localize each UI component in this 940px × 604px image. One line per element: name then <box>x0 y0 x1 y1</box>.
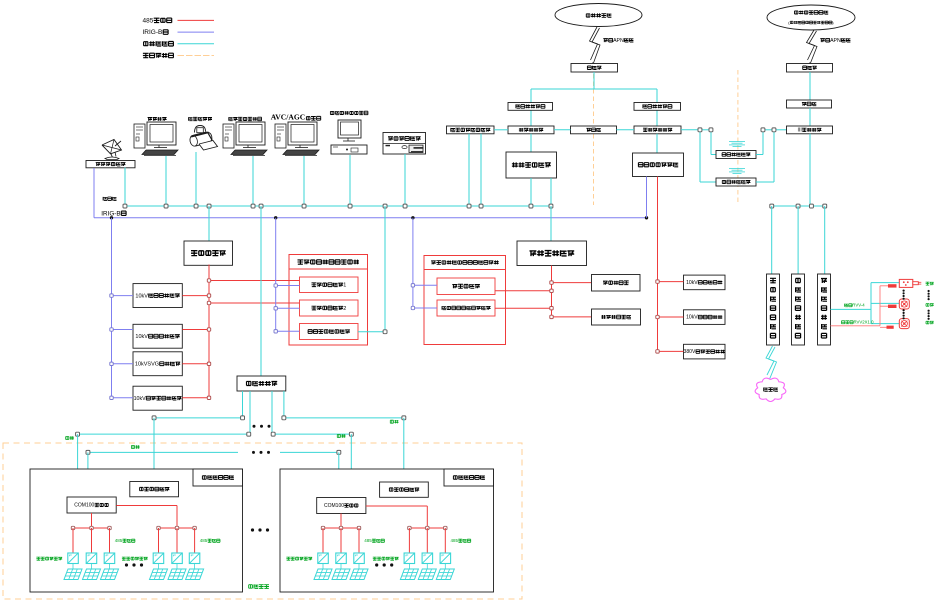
svg-text:COM100: COM100 <box>324 503 344 509</box>
svg-text:10kV: 10kV <box>135 293 148 299</box>
svg-text:10kV: 10kV <box>134 396 147 402</box>
svg-text:380V: 380V <box>684 349 696 355</box>
svg-text:485: 485 <box>451 538 459 543</box>
svg-text:AVC/AGC: AVC/AGC <box>271 113 305 122</box>
svg-text:485: 485 <box>200 538 208 543</box>
svg-text:APN: APN <box>830 38 841 44</box>
svg-text:COM100: COM100 <box>74 503 94 509</box>
svg-text:IRIG-B: IRIG-B <box>143 29 163 36</box>
svg-text:10kV: 10kV <box>686 280 698 286</box>
svg-text:1: 1 <box>343 283 346 289</box>
svg-text:10kV: 10kV <box>686 315 698 321</box>
svg-text:2: 2 <box>343 306 346 312</box>
svg-text:RVV-4: RVV-4 <box>852 303 865 308</box>
svg-text:III: III <box>798 128 802 134</box>
svg-text:485: 485 <box>364 538 372 543</box>
svg-text:APN: APN <box>613 38 624 44</box>
svg-text:10kV: 10kV <box>135 334 148 340</box>
svg-text:485: 485 <box>143 18 154 25</box>
svg-text:10kVSVG: 10kVSVG <box>135 362 159 368</box>
svg-text:485: 485 <box>115 538 123 543</box>
svg-text:RVV2X1.0: RVV2X1.0 <box>854 320 875 325</box>
